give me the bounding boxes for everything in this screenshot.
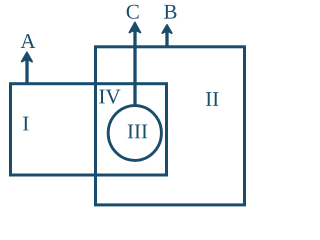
rect II [96,47,245,205]
label I [23,117,28,131]
label III [128,125,147,139]
arrow A [22,53,32,86]
arrow C [129,23,140,106]
arrow B [162,25,171,48]
label B [164,5,176,19]
label II [206,92,218,106]
label IV [99,90,120,104]
label A [21,34,36,48]
label C [127,5,139,19]
rect I [11,84,167,175]
circle III [108,106,161,161]
